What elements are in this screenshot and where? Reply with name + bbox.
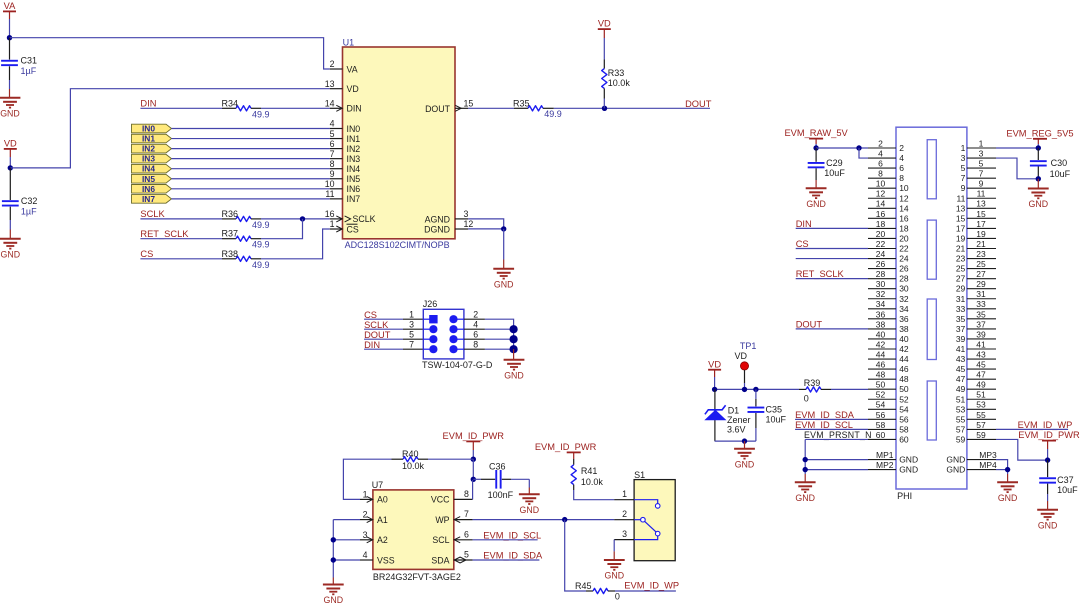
svg-text:EVM_ID_WP: EVM_ID_WP bbox=[624, 581, 679, 591]
wire R39 to PHI pin 50 bbox=[831, 388, 868, 390]
svg-text:VSS: VSS bbox=[377, 555, 395, 565]
net label EVM_ID_WP bbox=[624, 581, 679, 591]
PHI pin 26 bbox=[868, 259, 909, 274]
svg-text:25: 25 bbox=[976, 259, 986, 269]
svg-text:1: 1 bbox=[330, 219, 335, 229]
svg-text:2: 2 bbox=[363, 510, 368, 520]
svg-text:A2: A2 bbox=[377, 535, 388, 545]
svg-text:21: 21 bbox=[956, 244, 966, 254]
resistor R41 bbox=[571, 459, 603, 490]
svg-text:40: 40 bbox=[876, 329, 886, 339]
wire EVM_ID_SDA to PHI pin 56 bbox=[795, 418, 868, 420]
svg-text:14: 14 bbox=[876, 199, 886, 209]
svg-text:5: 5 bbox=[979, 159, 984, 169]
wire IN1 to U1 bbox=[172, 138, 330, 140]
PHI pin 35 bbox=[956, 309, 996, 324]
svg-text:55: 55 bbox=[976, 410, 986, 420]
svg-text:GND: GND bbox=[520, 505, 540, 515]
svg-text:C32: C32 bbox=[21, 196, 38, 206]
svg-text:36: 36 bbox=[899, 314, 909, 324]
ground bbox=[519, 494, 540, 515]
svg-text:EVM_RAW_5V: EVM_RAW_5V bbox=[784, 128, 848, 138]
svg-text:IN6: IN6 bbox=[347, 184, 361, 194]
wire R37 to SCLK junction bbox=[261, 219, 303, 239]
U7 pin 4 VSS bbox=[360, 550, 395, 565]
svg-text:GND: GND bbox=[0, 108, 20, 118]
net label CS bbox=[364, 310, 377, 320]
svg-text:7: 7 bbox=[464, 509, 469, 519]
svg-text:16: 16 bbox=[899, 213, 909, 223]
junction bottom bbox=[742, 438, 747, 443]
svg-text:IN2: IN2 bbox=[347, 144, 361, 154]
PHI pin MP2 bbox=[868, 460, 918, 475]
U1 pin 9 IN5 bbox=[330, 169, 361, 184]
PHI pin 3 bbox=[961, 148, 996, 163]
svg-text:1µF: 1µF bbox=[21, 66, 37, 76]
svg-text:9: 9 bbox=[961, 183, 966, 193]
wire EVM_ID_SCL bbox=[473, 539, 538, 541]
svg-text:10: 10 bbox=[899, 183, 909, 193]
op-amp U1 body bbox=[343, 47, 456, 239]
svg-text:IN5: IN5 bbox=[142, 174, 155, 184]
svg-text:13: 13 bbox=[956, 203, 966, 213]
ground bbox=[734, 449, 755, 470]
svg-text:9: 9 bbox=[330, 169, 335, 179]
svg-text:50: 50 bbox=[899, 384, 909, 394]
svg-text:ADC128S102CIMT/NOPB: ADC128S102CIMT/NOPB bbox=[345, 240, 450, 250]
PHI pin 32 bbox=[868, 289, 909, 304]
svg-text:EVM_ID_SCL: EVM_ID_SCL bbox=[483, 530, 541, 540]
diode D1 (zener) bbox=[704, 389, 750, 441]
wire CS bbox=[140, 258, 222, 260]
svg-text:30: 30 bbox=[876, 279, 886, 289]
svg-text:CS: CS bbox=[796, 239, 809, 249]
svg-text:53: 53 bbox=[956, 404, 966, 414]
PHI pin 47 bbox=[956, 370, 996, 385]
wire EVM_PRSNT_N to PHI pin 60 bbox=[805, 438, 868, 440]
wire SCLK to J26 bbox=[364, 319, 423, 329]
svg-text:VD: VD bbox=[4, 139, 17, 149]
svg-text:3.6V: 3.6V bbox=[727, 425, 746, 435]
svg-text:16: 16 bbox=[876, 209, 886, 219]
svg-text:DOUT: DOUT bbox=[685, 99, 712, 109]
PHI pin 16 bbox=[868, 209, 909, 224]
svg-text:34: 34 bbox=[899, 304, 909, 314]
svg-text:4: 4 bbox=[878, 148, 883, 158]
PHI pin 28 bbox=[868, 269, 909, 284]
svg-text:PHI: PHI bbox=[897, 491, 912, 501]
svg-text:C29: C29 bbox=[826, 158, 843, 168]
svg-text:10.0k: 10.0k bbox=[581, 477, 604, 487]
svg-text:34: 34 bbox=[876, 299, 886, 309]
wire R34 to U1 pin 14 bbox=[261, 107, 330, 109]
wire WP to S1 pin 2 bbox=[473, 519, 615, 521]
wire MP3 bbox=[996, 460, 1008, 483]
PHI pin 23 bbox=[956, 249, 996, 264]
svg-text:58: 58 bbox=[899, 424, 909, 434]
wire IN4 to U1 bbox=[172, 168, 330, 170]
svg-text:59: 59 bbox=[976, 430, 986, 440]
net label DIN bbox=[140, 99, 156, 109]
svg-text:GND: GND bbox=[899, 455, 918, 465]
ground bbox=[493, 269, 514, 290]
junction VSS bbox=[331, 557, 336, 562]
svg-text:35: 35 bbox=[956, 314, 966, 324]
svg-text:R45: R45 bbox=[575, 581, 592, 591]
net label CS bbox=[796, 239, 809, 249]
svg-text:EVM_ID_WP: EVM_ID_WP bbox=[1018, 420, 1073, 430]
svg-text:VD: VD bbox=[708, 359, 721, 369]
svg-text:8: 8 bbox=[878, 169, 883, 179]
svg-text:IN4: IN4 bbox=[347, 164, 361, 174]
svg-text:A0: A0 bbox=[377, 495, 388, 505]
node IN1 input flag bbox=[132, 134, 172, 144]
wire RET_SCLK to PHI pin 28 bbox=[796, 278, 868, 280]
svg-text:59: 59 bbox=[956, 434, 966, 444]
svg-text:28: 28 bbox=[899, 274, 909, 284]
wire junction to VCC bbox=[472, 459, 474, 479]
svg-text:6: 6 bbox=[473, 329, 478, 339]
resistor R39 bbox=[799, 378, 831, 404]
net label EVM_ID_SCL bbox=[795, 420, 853, 430]
svg-text:29: 29 bbox=[976, 279, 986, 289]
svg-text:R40: R40 bbox=[402, 449, 419, 459]
wire D1/C35 bottom bbox=[715, 440, 756, 442]
svg-text:48: 48 bbox=[899, 374, 909, 384]
svg-text:R34: R34 bbox=[222, 98, 239, 108]
svg-text:J26: J26 bbox=[423, 299, 438, 309]
svg-text:GND: GND bbox=[1038, 520, 1058, 530]
wire DOUT bbox=[554, 107, 710, 109]
svg-text:R36: R36 bbox=[222, 209, 239, 219]
svg-text:55: 55 bbox=[956, 414, 966, 424]
wire MP4 bbox=[996, 469, 1008, 471]
svg-text:IN4: IN4 bbox=[142, 164, 155, 174]
PHI pin 14 bbox=[868, 199, 909, 214]
wire VD row bbox=[715, 388, 799, 390]
svg-text:DIN: DIN bbox=[347, 104, 362, 114]
svg-text:57: 57 bbox=[956, 424, 966, 434]
svg-text:60: 60 bbox=[899, 434, 909, 444]
svg-text:26: 26 bbox=[876, 259, 886, 269]
power flag VA bbox=[3, 1, 16, 38]
svg-text:5: 5 bbox=[330, 129, 335, 139]
wire EVM_PRSNT_N to ground bbox=[804, 439, 806, 482]
svg-text:29: 29 bbox=[956, 284, 966, 294]
svg-text:3: 3 bbox=[961, 153, 966, 163]
svg-text:21: 21 bbox=[976, 239, 986, 249]
svg-text:12: 12 bbox=[899, 193, 909, 203]
net label RET_SCLK bbox=[796, 269, 845, 279]
wire CS to PHI pin 22 bbox=[796, 248, 868, 250]
svg-text:8: 8 bbox=[473, 339, 478, 349]
S1 lever bbox=[645, 521, 656, 531]
svg-text:1: 1 bbox=[961, 143, 966, 153]
PHI pin 1 bbox=[961, 138, 996, 153]
PHI pin 11 bbox=[956, 189, 996, 204]
PHI pin 45 bbox=[956, 360, 996, 375]
svg-text:CS: CS bbox=[140, 249, 153, 259]
svg-text:VA: VA bbox=[4, 1, 17, 11]
node IN7 input flag bbox=[132, 194, 172, 204]
U1 pin 7 IN3 bbox=[330, 149, 361, 164]
svg-text:R41: R41 bbox=[581, 466, 598, 476]
label U7 bbox=[372, 480, 384, 490]
svg-text:49.9: 49.9 bbox=[252, 260, 270, 270]
wire A1/A2/VSS to ground bbox=[333, 520, 360, 585]
svg-text:EVM_PRSNT_N: EVM_PRSNT_N bbox=[804, 430, 872, 440]
svg-text:17: 17 bbox=[976, 219, 986, 229]
svg-text:15: 15 bbox=[956, 213, 966, 223]
PHI pin 43 bbox=[956, 349, 996, 364]
wire to PHI pin 24 bbox=[796, 258, 868, 260]
wire DGND bbox=[468, 228, 503, 230]
wire PHI pin 57 bbox=[996, 428, 1068, 430]
svg-text:39: 39 bbox=[956, 334, 966, 344]
svg-text:49.9: 49.9 bbox=[252, 109, 270, 119]
wire R40 to junction bbox=[428, 458, 473, 460]
svg-text:10uF: 10uF bbox=[766, 415, 787, 425]
wire PHI pin 1 bbox=[996, 147, 1038, 149]
J26 pin 8 bbox=[449, 339, 485, 353]
svg-text:51: 51 bbox=[976, 390, 986, 400]
junction J26 pin 6 bbox=[509, 335, 517, 343]
junction C35 bbox=[753, 387, 758, 392]
PHI pin 17 bbox=[956, 219, 996, 234]
svg-text:11: 11 bbox=[325, 189, 334, 199]
svg-text:10: 10 bbox=[876, 179, 886, 189]
wire DOUT to J26 bbox=[364, 329, 423, 339]
U7 pin 5 SDA bbox=[431, 550, 472, 566]
junction MP1 bbox=[803, 457, 808, 462]
svg-text:42: 42 bbox=[899, 344, 909, 354]
svg-text:3: 3 bbox=[464, 209, 469, 219]
svg-text:19: 19 bbox=[956, 233, 966, 243]
wire SCLK bbox=[140, 218, 222, 220]
power flag VD bbox=[4, 139, 17, 168]
svg-text:SDA: SDA bbox=[431, 555, 449, 565]
svg-text:R33: R33 bbox=[608, 68, 625, 78]
svg-text:7: 7 bbox=[409, 339, 414, 349]
svg-text:EVM_ID_SDA: EVM_ID_SDA bbox=[795, 410, 855, 420]
svg-text:17: 17 bbox=[956, 223, 966, 233]
svg-text:1: 1 bbox=[622, 489, 627, 499]
wire WP branch to R45 bbox=[565, 520, 586, 591]
node IN4 input flag bbox=[132, 164, 172, 174]
svg-text:Zener: Zener bbox=[727, 415, 751, 425]
S1 pin 3 bbox=[614, 529, 660, 540]
svg-text:1: 1 bbox=[363, 489, 368, 499]
net label DOUT bbox=[364, 330, 391, 340]
svg-text:C37: C37 bbox=[1057, 475, 1074, 485]
power flag EVM_ID_PWR bbox=[1018, 430, 1080, 460]
svg-text:GND: GND bbox=[899, 465, 918, 475]
svg-text:MP1: MP1 bbox=[876, 450, 894, 460]
PHI pin 41 bbox=[956, 339, 996, 354]
wire IN0 to U1 bbox=[172, 128, 330, 130]
svg-text:9: 9 bbox=[979, 179, 984, 189]
svg-text:52: 52 bbox=[876, 390, 886, 400]
svg-text:R35: R35 bbox=[513, 98, 530, 108]
svg-text:26: 26 bbox=[899, 264, 909, 274]
svg-text:31: 31 bbox=[956, 294, 966, 304]
PHI pin 12 bbox=[868, 189, 909, 204]
svg-text:C35: C35 bbox=[766, 405, 783, 415]
svg-text:24: 24 bbox=[899, 254, 909, 264]
svg-text:11: 11 bbox=[977, 189, 986, 199]
PHI pin 24 bbox=[868, 249, 909, 264]
power flag EVM_REG_5V5 bbox=[1006, 128, 1073, 148]
label J26 bbox=[423, 299, 438, 309]
svg-text:DOUT: DOUT bbox=[425, 104, 451, 114]
resistor R45 bbox=[575, 581, 620, 602]
svg-text:GND: GND bbox=[735, 459, 755, 469]
net label EVM_PRSNT_N bbox=[804, 430, 872, 440]
svg-text:GND: GND bbox=[605, 571, 625, 581]
svg-text:45: 45 bbox=[956, 364, 966, 374]
PHI pin 31 bbox=[956, 289, 996, 304]
net label SCLK bbox=[364, 320, 389, 330]
PHI pin 9 bbox=[961, 179, 996, 194]
PHI key slots bbox=[927, 140, 936, 440]
wire AGND bbox=[468, 219, 503, 229]
svg-text:GND: GND bbox=[494, 279, 514, 289]
svg-text:49.9: 49.9 bbox=[252, 220, 270, 230]
PHI pin 60 bbox=[868, 430, 909, 445]
wire R41 to S1 pin 1 bbox=[574, 490, 615, 500]
svg-text:C30: C30 bbox=[1051, 158, 1068, 168]
ground bbox=[1028, 189, 1049, 210]
PHI pin 21 bbox=[956, 239, 996, 254]
net label DIN bbox=[796, 219, 812, 229]
label U1 bbox=[343, 38, 355, 48]
PHI pin 40 bbox=[868, 329, 909, 344]
PHI pin 58 bbox=[868, 420, 909, 435]
J26 pin 2 bbox=[449, 309, 485, 323]
net label DIN bbox=[364, 340, 380, 350]
capacitor C37 bbox=[1039, 460, 1078, 510]
U1 pin 16 SCLK bbox=[325, 209, 376, 224]
svg-text:18: 18 bbox=[899, 223, 909, 233]
svg-text:DIN: DIN bbox=[796, 219, 812, 229]
U1 pin 8 IN4 bbox=[330, 159, 361, 174]
svg-text:VD: VD bbox=[598, 19, 611, 29]
capacitor C35 bbox=[748, 389, 787, 441]
ground bbox=[504, 360, 525, 381]
svg-text:TP1: TP1 bbox=[740, 341, 757, 351]
svg-text:A1: A1 bbox=[377, 515, 388, 525]
svg-text:3: 3 bbox=[979, 148, 984, 158]
connector J26 body bbox=[423, 309, 464, 359]
svg-text:5: 5 bbox=[961, 163, 966, 173]
svg-text:10.0k: 10.0k bbox=[402, 461, 425, 471]
U7 pin 7 WP bbox=[435, 509, 472, 525]
test point TP1 bbox=[735, 341, 757, 389]
svg-text:GND: GND bbox=[806, 199, 826, 209]
svg-text:4: 4 bbox=[330, 119, 335, 129]
wire VCC up bbox=[472, 480, 474, 500]
junction DOUT/R33 bbox=[602, 106, 607, 111]
wire PHI pin 59 bbox=[996, 439, 1048, 460]
svg-text:R38: R38 bbox=[222, 249, 239, 259]
svg-text:SCLK: SCLK bbox=[140, 209, 165, 219]
wire MP1 bbox=[805, 459, 868, 461]
U1 pin 14 DIN bbox=[325, 99, 362, 114]
svg-text:7: 7 bbox=[979, 169, 984, 179]
svg-text:IN6: IN6 bbox=[142, 184, 155, 194]
svg-text:CS: CS bbox=[364, 310, 377, 320]
label TSW-104-07-G-D bbox=[422, 360, 493, 370]
U1 pin 10 IN6 bbox=[325, 179, 361, 194]
svg-text:10uF: 10uF bbox=[1050, 169, 1071, 179]
svg-text:IN7: IN7 bbox=[142, 194, 155, 204]
ground bbox=[806, 188, 827, 209]
wire RET_SCLK bbox=[140, 238, 222, 240]
svg-text:2: 2 bbox=[622, 509, 627, 519]
svg-text:DGND: DGND bbox=[424, 225, 450, 235]
svg-text:16: 16 bbox=[325, 209, 335, 219]
svg-text:6: 6 bbox=[464, 529, 469, 539]
wire to PHI pin 4 bbox=[859, 148, 868, 158]
S1 pin 1 bbox=[614, 489, 660, 508]
PHI pin 51 bbox=[956, 390, 996, 405]
wire EVM_ID_SCL to PHI pin 58 bbox=[795, 428, 868, 430]
svg-text:46: 46 bbox=[899, 364, 909, 374]
PHI pin MP4 bbox=[946, 460, 997, 475]
PHI pin 57 bbox=[956, 420, 996, 435]
wire IN7 to U1 bbox=[172, 198, 330, 200]
PHI pin 34 bbox=[868, 299, 909, 314]
PHI pin 27 bbox=[956, 269, 996, 284]
svg-text:RET_SCLK: RET_SCLK bbox=[140, 229, 189, 239]
svg-text:EVM_ID_PWR: EVM_ID_PWR bbox=[1018, 430, 1080, 440]
svg-text:41: 41 bbox=[976, 339, 986, 349]
svg-text:4: 4 bbox=[899, 153, 904, 163]
wire IN3 to U1 bbox=[172, 158, 330, 160]
wire DIN bbox=[140, 107, 222, 109]
PHI pin 38 bbox=[868, 319, 909, 334]
ground bbox=[1037, 510, 1058, 531]
svg-text:13: 13 bbox=[976, 199, 986, 209]
svg-text:IN1: IN1 bbox=[142, 134, 155, 144]
svg-text:SCLK: SCLK bbox=[364, 320, 389, 330]
svg-text:GND: GND bbox=[504, 370, 524, 380]
svg-text:GND: GND bbox=[1, 249, 21, 259]
svg-text:2: 2 bbox=[330, 59, 335, 69]
PHI pin 10 bbox=[868, 179, 909, 194]
svg-text:23: 23 bbox=[976, 249, 986, 259]
svg-text:IN0: IN0 bbox=[347, 124, 361, 134]
svg-text:7: 7 bbox=[330, 149, 335, 159]
svg-text:42: 42 bbox=[876, 339, 886, 349]
wire DIN to PHI pin 18 bbox=[796, 227, 868, 229]
net label EVM_ID_SDA bbox=[795, 410, 855, 420]
label ADC128S102CIMT/NOPB bbox=[345, 240, 450, 250]
node IN5 input flag bbox=[132, 174, 172, 184]
U1 pin 1 CS bbox=[330, 219, 359, 234]
svg-text:33: 33 bbox=[976, 299, 986, 309]
svg-text:32: 32 bbox=[899, 294, 909, 304]
junction MP2 bbox=[803, 467, 808, 472]
svg-text:51: 51 bbox=[956, 394, 966, 404]
label BR24G32FVT-3AGE2 bbox=[373, 572, 461, 582]
junction J26 pin 8 bbox=[509, 345, 517, 353]
svg-text:1: 1 bbox=[409, 309, 414, 319]
U1 pin 3 AGND bbox=[425, 209, 469, 224]
wire PHI pin 3 bbox=[996, 158, 1038, 179]
svg-text:GND: GND bbox=[998, 493, 1018, 503]
svg-text:2: 2 bbox=[899, 143, 904, 153]
